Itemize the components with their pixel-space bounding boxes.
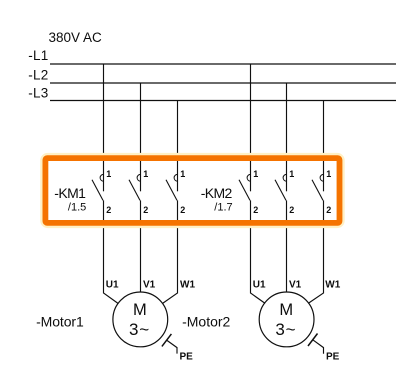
svg-text:1: 1: [143, 169, 148, 179]
highlight box around contactor contacts: [45, 158, 339, 223]
wire L2 to KM1 pin 3: [140, 83, 142, 191]
PE connection motor2: [308, 334, 324, 354]
svg-text:2: 2: [143, 205, 148, 215]
svg-text:2: 2: [289, 205, 294, 215]
svg-text:2: 2: [106, 205, 111, 215]
svg-text:V1: V1: [143, 280, 156, 291]
wire KM1 pin 2 to motor1 U1: [104, 200, 119, 303]
motor M1 (3-phase): [113, 292, 168, 347]
wire KM2 pin 6 to motor2 W1: [308, 200, 323, 303]
svg-text:-L2: -L2: [28, 67, 48, 82]
bus wire L3: [50, 100, 396, 102]
svg-text:2: 2: [326, 205, 331, 215]
svg-text:M: M: [279, 301, 293, 319]
contact KM1 pole 3: [166, 174, 178, 200]
svg-text:1: 1: [326, 169, 331, 179]
wire L2 to KM2 pin 3: [286, 83, 288, 191]
svg-text:/1.5: /1.5: [68, 202, 86, 214]
wire KM2 pin 4 to motor2 V1: [286, 200, 288, 292]
svg-text:U1: U1: [253, 280, 266, 291]
svg-text:-Motor2: -Motor2: [182, 313, 230, 329]
svg-text:3~: 3~: [129, 320, 150, 339]
svg-text:1: 1: [253, 169, 258, 179]
wire L3 to KM1 pin 5: [177, 101, 179, 192]
svg-text:W1: W1: [325, 280, 340, 291]
svg-text:PE: PE: [180, 352, 194, 363]
bus wire L2: [50, 82, 396, 84]
PE connection motor1: [162, 334, 177, 354]
svg-text:1: 1: [289, 169, 294, 179]
wire KM2 pin 2 to motor2 U1: [251, 200, 266, 303]
svg-text:V1: V1: [289, 280, 302, 291]
svg-text:380V AC: 380V AC: [49, 30, 103, 45]
contact KM1 pole 2: [129, 174, 141, 200]
svg-text:1: 1: [180, 169, 185, 179]
svg-text:U1: U1: [106, 280, 119, 291]
wire L3 to KM2 pin 5: [323, 101, 325, 192]
svg-text:2: 2: [253, 205, 258, 215]
svg-text:PE: PE: [326, 352, 340, 363]
motor M2 (3-phase): [259, 292, 314, 347]
wire L1 to KM2 pin 1: [250, 64, 252, 191]
svg-text:W1: W1: [180, 280, 195, 291]
svg-text:3~: 3~: [275, 320, 296, 339]
svg-text:-Motor1: -Motor1: [36, 313, 84, 329]
svg-text:-KM2: -KM2: [201, 185, 233, 201]
svg-text:/1.7: /1.7: [214, 202, 232, 214]
svg-text:-L3: -L3: [28, 86, 48, 101]
wire KM1 pin 4 to motor1 V1: [140, 200, 142, 292]
contact KM2 pole 3: [312, 174, 324, 200]
svg-text:2: 2: [180, 205, 185, 215]
wire L1 to KM1 pin 1: [103, 64, 105, 191]
highlight box glow: [44, 157, 341, 224]
contact KM1 pole 1: [92, 174, 104, 200]
svg-text:-KM1: -KM1: [54, 185, 86, 201]
contact KM2 pole 1: [239, 174, 251, 200]
svg-text:-L1: -L1: [28, 48, 48, 63]
bus wire L1: [50, 63, 396, 65]
svg-text:1: 1: [106, 169, 111, 179]
wire KM1 pin 6 to motor1 W1: [163, 200, 178, 303]
contact KM2 pole 2: [275, 174, 287, 200]
svg-text:M: M: [133, 301, 147, 319]
